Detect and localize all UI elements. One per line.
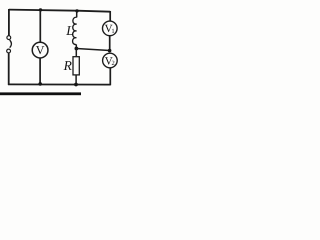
switch S: top terminal circle bbox=[7, 36, 11, 40]
svg-text:2: 2 bbox=[111, 60, 114, 67]
node: bottom junction of resistor branch bbox=[74, 83, 78, 87]
wire: resistor bottom to bottom wire bbox=[75, 75, 77, 85]
wire: bottom horizontal bbox=[8, 83, 111, 85]
node: mid junction (between L and R) bbox=[75, 47, 79, 51]
svg-text:R: R bbox=[63, 58, 73, 73]
wire: mid horizontal (to V1/V2 junction) bbox=[76, 49, 109, 51]
node: mid-right junction bbox=[108, 49, 112, 53]
wire: mid junction to resistor top bbox=[75, 49, 77, 57]
voltmeter V: circle bbox=[32, 42, 48, 58]
svg-text:V: V bbox=[36, 43, 45, 57]
wire: junction to coil top bbox=[76, 11, 78, 18]
node: top junction of voltmeter V branch bbox=[39, 8, 42, 11]
background bbox=[0, 0, 125, 98]
resistor R: box bbox=[73, 57, 79, 75]
voltmeter V1: circle bbox=[103, 21, 118, 36]
wire: V1 bottom to mid-right junction bbox=[109, 36, 111, 51]
wire: voltmeter V branch lower bbox=[39, 58, 41, 84]
wire: coil bottom to mid junction bbox=[75, 44, 77, 49]
wire: V2 bottom to bottom-right corner bbox=[109, 68, 111, 86]
voltmeter V2: circle bbox=[103, 53, 118, 68]
switch S: blade bbox=[10, 40, 12, 48]
wire: left vertical lower (switch to bottom) bbox=[8, 53, 10, 85]
svg-text:L: L bbox=[65, 23, 74, 38]
node: bottom junction of voltmeter V branch bbox=[38, 82, 42, 86]
wire: top-right corner down to V1 bbox=[109, 11, 111, 21]
thick printed rule at page bottom bbox=[0, 92, 81, 95]
switch S: bottom terminal circle bbox=[7, 49, 11, 53]
wire: voltmeter V branch upper bbox=[39, 10, 41, 43]
inductor L: coil (4 left-facing loops) bbox=[73, 17, 77, 44]
svg-text:1: 1 bbox=[111, 28, 114, 35]
wire: top horizontal bbox=[9, 10, 110, 12]
wire: left vertical upper (to switch) bbox=[8, 9, 10, 36]
node: top junction of inductor branch bbox=[75, 9, 78, 12]
